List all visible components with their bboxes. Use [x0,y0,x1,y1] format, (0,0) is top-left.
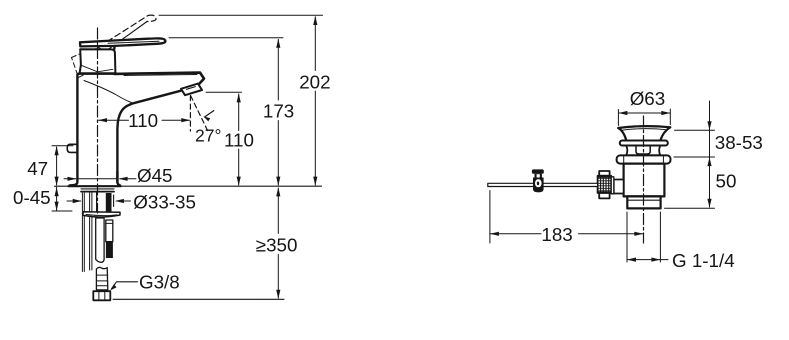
hex facets [99,291,105,300]
supply hose tube [96,218,104,262]
right dim vertical line [709,101,711,207]
rod nut knurl [601,176,609,193]
supply tube pair right [90,193,92,271]
rod clamp body [533,178,544,193]
G3/8 leader [112,282,138,289]
aerator dashed angled 27 [191,96,208,131]
threaded shank black [106,193,112,212]
dim O63 arrows [618,111,670,115]
svg-text:173: 173 [263,101,294,122]
ring2 inner lines [624,156,664,164]
dim O63 line [618,112,670,114]
dim 0-45 arrows [55,187,59,210]
pipe ext lines [627,212,660,262]
dim 50 ext3 [665,207,715,209]
base flange under deck [81,188,114,190]
drain dome top [618,126,670,128]
svg-text:202: 202 [299,72,330,93]
svg-text:110: 110 [128,110,158,131]
handle raised position dashed [83,15,156,57]
cap bottom edge [78,72,116,74]
dim 0-45 bottom ext [52,210,72,212]
dim 173 arrows [276,39,280,186]
aerator dashed vertical [189,96,191,131]
handle inner thin line [108,41,159,43]
dim 183 line [490,233,643,235]
neck dashed curve [99,48,111,63]
38-53 arrows [707,121,711,166]
spout underside curve [117,91,180,182]
dim 110 horizontal line [99,119,190,121]
dim 47 ext line [52,145,73,147]
shank white cylinder edge [96,193,98,212]
spout top [115,73,205,84]
svg-text:47: 47 [27,158,48,179]
hose connector bands [96,275,107,286]
aerator [181,84,202,96]
dim 38-53 ext1 [675,129,715,131]
dim 183 ext left [489,191,491,244]
dim 202 ext [159,14,323,16]
dim G 1-1/4 arrows [627,258,660,262]
dim 202 arrows [313,16,317,186]
dim 173 ext [169,37,283,39]
dim 0-45 line [56,187,58,210]
dim O45 leader right [120,178,136,180]
svg-text:38-53: 38-53 [715,132,763,153]
dim 110 vertical line [238,94,240,185]
dim G 1-1/4 line [627,259,668,261]
drain dome flare sides [618,127,670,140]
dim 38-53 ext2 [674,156,715,158]
dim 47 arrows [55,146,59,185]
aerator inner line [187,87,196,90]
deck line [55,185,322,187]
rod [488,183,598,186]
svg-text:G3/8: G3/8 [139,271,180,292]
dim O63 ext ticks [618,109,670,126]
svg-text:183: 183 [541,224,572,245]
rod nut body [598,176,612,193]
angle arrow 27 [205,111,214,117]
side tab [67,144,77,152]
dim O33-35 leader right [117,200,131,202]
mounting washer [83,212,120,217]
deck under faucet base thicker [69,185,121,187]
supply tube pair left [82,193,84,272]
faucet handle lever [80,38,165,46]
dim 202 line [314,17,316,185]
handle neck [112,46,114,57]
rod clamp top [532,169,544,173]
faucet body outline [70,75,120,186]
hose connector [96,267,107,290]
dim 183 arrows [490,232,643,236]
lift rod tube [106,220,113,242]
ring2 capsule [617,155,671,163]
tailpipe inner line [627,199,660,201]
svg-text:Ø45: Ø45 [137,165,173,186]
rod nut top cap [599,171,609,176]
svg-text:110: 110 [224,129,254,150]
dim >=350 line [277,188,279,298]
cap thin V lines [81,65,113,72]
dim 173 line [277,39,279,185]
lift rod black section [106,242,113,258]
svg-text:50: 50 [716,171,737,192]
faucet cap (cartridge housing) [80,49,116,73]
handle raised position thin line [88,22,147,65]
dim 110 vertical arrows [237,93,241,185]
spool [626,146,660,156]
dim >=350 arrows [276,187,280,298]
dim 110 vertical ext [206,91,242,93]
spool hole [636,147,650,155]
G3/8 hex nut [93,291,110,300]
spout inner thin curve [84,81,134,104]
dim 110 horizontal arrows [98,118,190,122]
dim 50 bottom arrow [707,199,711,208]
body cylinder [624,164,665,197]
rod nut collar [611,177,614,194]
handle raised base dashed quad [72,50,98,78]
svg-text:≥350: ≥350 [256,235,298,256]
dim O33-35 leader left [67,200,81,202]
rod connector box [614,180,624,194]
rod clamp stem [535,174,542,178]
svg-text:Ø63: Ø63 [630,88,666,109]
svg-text:0-45: 0-45 [13,187,51,208]
O33-35 right ext tick [113,195,115,207]
rod clamp hole [535,179,542,187]
floor line [113,298,284,300]
drain centerline [643,116,645,243]
tailpipe [627,196,660,208]
spout top inner thin line [124,75,197,76]
rod nut bottom cap [599,193,609,198]
ring1 capsule [620,141,668,146]
svg-text:27°: 27° [195,125,221,145]
svg-text:Ø33-35: Ø33-35 [133,192,196,213]
svg-text:G 1-1/4: G 1-1/4 [672,250,735,271]
faucet centerline [97,28,99,213]
dim O45 leader left [64,178,116,180]
dim 47 line [56,147,58,185]
